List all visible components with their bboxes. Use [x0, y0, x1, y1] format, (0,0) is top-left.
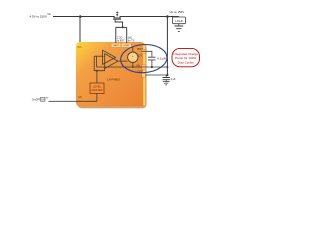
wire load to ground — [178, 24, 180, 26]
node junction cap-VS — [151, 66, 153, 68]
node junction rail-OUT — [166, 74, 168, 76]
wire feedback loop B — [94, 56, 104, 70]
pin GATE box — [111, 43, 120, 47]
pin BST edge box — [142, 50, 146, 54]
pin VCAP box — [121, 43, 131, 47]
svg-text:Up to 150V: Up to 150V — [170, 10, 185, 14]
svg-text:GATE: GATE — [113, 44, 119, 47]
svg-text:LM74800: LM74800 — [107, 77, 120, 81]
svg-text:EN: EN — [78, 95, 82, 99]
wire gate staircase — [115, 20, 127, 44]
transistor Q1 N-FET — [113, 11, 121, 19]
node junction Vin drop — [79, 15, 82, 18]
capacitor C1 0.1uF — [148, 57, 156, 60]
wire output rail drop — [166, 17, 168, 76]
charge pump CP circle — [128, 52, 138, 62]
svg-text:1 µF: 1 µF — [171, 78, 177, 81]
svg-text:Integrated Charge: Integrated Charge — [173, 52, 198, 56]
wire CP to VCAP pin — [132, 47, 134, 52]
pin OUT edge box — [142, 73, 146, 77]
svg-text:12V: 12V — [138, 54, 143, 57]
svg-text:SHIFTER: SHIFTER — [91, 88, 102, 92]
level shifter block — [90, 83, 104, 93]
op-amp U1a — [103, 50, 116, 64]
svg-text:VCAP: VCAP — [123, 44, 129, 47]
node junction level shifter tap — [96, 70, 98, 72]
IC U1 shadow — [78, 44, 147, 109]
annotation ellipse charge pump — [120, 43, 168, 74]
wire input staircase to op-amp — [94, 55, 102, 57]
IC U1 LM74800 body — [76, 42, 145, 107]
ground under C2 — [163, 81, 170, 84]
wire Vin drop into IC — [79, 17, 81, 43]
svg-text:Pump for 100%: Pump for 100% — [175, 56, 196, 60]
wire output rail right — [120, 16, 179, 18]
svg-text:for TS: for TS — [128, 39, 135, 42]
svg-text:Vin: Vin — [47, 12, 51, 16]
load box — [173, 17, 186, 24]
wire BST to cap — [142, 51, 152, 57]
node junction gate tee — [122, 26, 124, 28]
annotation note box — [172, 48, 200, 66]
svg-text:Duty Cycles: Duty Cycles — [178, 61, 195, 65]
node junction VS-rail — [166, 66, 168, 68]
wire level shifter bottom — [49, 93, 97, 101]
signal source ON toggle box — [40, 97, 45, 101]
node junction CP-VS — [132, 66, 134, 68]
wire op-amp output — [118, 60, 128, 62]
capacitor C2 1uF — [163, 78, 170, 80]
svg-text:to BST: to BST — [117, 39, 125, 42]
wire level shifter top — [96, 71, 98, 83]
wire feedback loop A — [97, 56, 133, 67]
svg-text:LOAD: LOAD — [175, 19, 182, 23]
op-amp U1b — [105, 54, 118, 69]
svg-text:ON: ON — [41, 98, 45, 101]
svg-text:LEVEL: LEVEL — [93, 84, 102, 88]
ground under load — [174, 26, 183, 31]
wire OUT to C2 — [145, 75, 167, 77]
wire VS to rail — [133, 62, 168, 67]
pin VS edge box — [142, 65, 146, 69]
node junction output drop — [166, 15, 169, 18]
svg-text:Vin: Vin — [77, 45, 81, 49]
wire to load — [178, 16, 180, 19]
wire Vin rail left — [53, 16, 115, 18]
transistor Q1 body diode arrow — [116, 13, 119, 15]
svg-text:0.1 µF: 0.1 µF — [157, 57, 166, 61]
svg-text:4.5V to 150V: 4.5V to 150V — [30, 14, 47, 18]
